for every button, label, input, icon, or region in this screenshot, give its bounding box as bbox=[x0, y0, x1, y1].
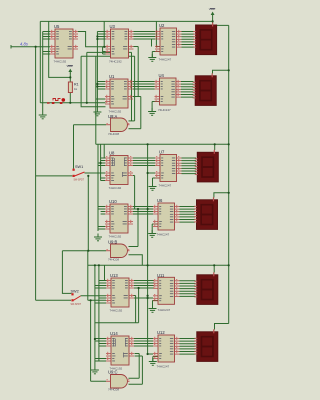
switch SW1 bbox=[73, 165, 85, 182]
wire bus to display4 bbox=[214, 193, 229, 198]
counter U8 bbox=[105, 151, 133, 191]
wire gate3 input feed bbox=[91, 300, 106, 381]
svg-text:74HC247: 74HC247 bbox=[159, 58, 172, 62]
wire U1 Q to U4 rows bbox=[133, 82, 155, 90]
wire top rail bbox=[40, 20, 212, 22]
svg-text:SW1: SW1 bbox=[75, 165, 83, 169]
input terminal bbox=[11, 45, 13, 49]
svg-text:U9:A: U9:A bbox=[108, 114, 118, 119]
ground under U6 bbox=[148, 230, 156, 237]
svg-text:74HC247: 74HC247 bbox=[158, 308, 171, 312]
wire U14 Q to U12 rows bbox=[134, 339, 153, 347]
wire U10 Q to U6 rows bbox=[133, 207, 153, 215]
svg-text:U3: U3 bbox=[110, 24, 116, 29]
svg-text:U12: U12 bbox=[157, 330, 165, 335]
ground under U4 bbox=[148, 108, 156, 115]
wire row 2 under U5 bbox=[86, 52, 88, 102]
driver U12 bbox=[153, 330, 180, 369]
svg-text:U6: U6 bbox=[157, 198, 163, 203]
svg-text:1k: 1k bbox=[74, 87, 78, 91]
svg-text:74HC247: 74HC247 bbox=[158, 108, 171, 112]
wire U14 TCU to gate3 bbox=[129, 354, 140, 379]
vcc power 2 bbox=[68, 65, 73, 74]
wire clock row bbox=[40, 102, 105, 104]
wire riser right of gate1 bbox=[140, 97, 142, 129]
display DISP2 bbox=[193, 73, 217, 105]
wire U14 D stubs bbox=[95, 339, 106, 347]
svg-text:74HC192: 74HC192 bbox=[109, 235, 122, 239]
and gate U9:C bbox=[106, 370, 130, 392]
counter U10 bbox=[105, 199, 133, 239]
wire bus to display6 bbox=[215, 324, 229, 330]
wire under U3 row2 bbox=[81, 55, 135, 57]
wire rail drop to U8 bbox=[104, 144, 106, 158]
wire U6 gnd tie bbox=[152, 224, 158, 234]
svg-text:U1: U1 bbox=[109, 74, 115, 79]
driver U6 bbox=[153, 198, 180, 237]
svg-text:74HC08: 74HC08 bbox=[108, 132, 119, 136]
wire mid rail feed bbox=[95, 56, 97, 144]
svg-text:74HC192: 74HC192 bbox=[54, 60, 67, 64]
wire U2 to display1 rows bbox=[182, 32, 195, 48]
wire U10 D stubs bbox=[98, 207, 105, 215]
wire R1 bottom bbox=[69, 93, 71, 103]
svg-text:4.8s: 4.8s bbox=[20, 42, 29, 47]
driver U7 bbox=[155, 150, 182, 188]
wire bottom left bus1 bbox=[94, 265, 96, 366]
counter U1 bbox=[105, 74, 133, 114]
vcc power 1 bbox=[210, 8, 215, 17]
clock generator bbox=[47, 98, 65, 104]
wire gate1 low row bbox=[129, 128, 141, 130]
wire U7 gnd tie bbox=[153, 178, 161, 187]
driver U11 bbox=[153, 273, 180, 312]
wire bottom feedback row bbox=[95, 322, 139, 324]
ground mid left bus bbox=[94, 234, 102, 241]
svg-text:74HC192: 74HC192 bbox=[110, 309, 123, 313]
svg-text:U11: U11 bbox=[157, 273, 165, 278]
wire bottom feedback riser2 bbox=[133, 296, 136, 323]
wire U3 D stubs bbox=[97, 32, 105, 40]
svg-text:U9:B: U9:B bbox=[108, 240, 118, 245]
counter U5 bbox=[50, 24, 78, 64]
svg-text:U5: U5 bbox=[54, 24, 60, 29]
wire SW1 to gate2 bbox=[62, 176, 106, 251]
svg-text:74HC247: 74HC247 bbox=[159, 184, 172, 188]
wire mid feedback riser1 bbox=[133, 176, 135, 210]
wire U2 gnd tie bbox=[152, 52, 160, 58]
wire rail drop to U2 bbox=[156, 21, 160, 46]
wire mid left bus1 bbox=[97, 144, 99, 231]
wire U3 Q to U2 rows bbox=[134, 32, 156, 40]
wire rail drop to U3 up bbox=[104, 21, 106, 46]
wire mid left bus2 bbox=[100, 144, 102, 180]
wire U3 left bus bbox=[96, 32, 98, 109]
ground under U5 bus bbox=[39, 112, 47, 119]
wire long left vertical bbox=[35, 47, 37, 301]
svg-text:74HC192: 74HC192 bbox=[109, 186, 122, 190]
wire row under U5 bbox=[81, 56, 105, 106]
wire U5 D1 bbox=[43, 33, 50, 35]
display DISP6 bbox=[194, 329, 218, 361]
wire U14 low stubs bbox=[95, 359, 106, 362]
wire gate2 top row bbox=[129, 246, 139, 248]
wire U12 gnd tie bbox=[153, 357, 158, 362]
display DISP3 bbox=[195, 150, 219, 182]
wire bottom left bus2 bbox=[98, 265, 100, 361]
wire U12 LT row bbox=[148, 353, 153, 355]
wire U8 D stubs bbox=[98, 158, 105, 166]
and gate U9:A bbox=[106, 114, 130, 136]
wire gate1 feedback riser bbox=[131, 52, 133, 121]
wire U13 DN stub bbox=[99, 297, 106, 299]
svg-text:U7: U7 bbox=[159, 150, 165, 155]
wire to SW2 lower bbox=[36, 299, 71, 301]
wire right bus vertical bbox=[228, 25, 230, 323]
wire U8 low stubs bbox=[101, 178, 105, 181]
driver U4 bbox=[155, 73, 182, 112]
wire vcc to right bus bbox=[213, 24, 229, 26]
wire U13 MR stub bbox=[95, 302, 106, 304]
wire input terminal to U5 bbox=[13, 46, 51, 48]
svg-text:SW2: SW2 bbox=[71, 290, 79, 294]
wire gate1 top row bbox=[129, 120, 135, 122]
wire U3 PL stub bbox=[103, 51, 106, 53]
wire vcc1 stem bbox=[212, 17, 214, 24]
svg-text:SW-SPDT: SW-SPDT bbox=[71, 304, 82, 306]
wire bus to display5 bbox=[213, 265, 215, 272]
wire mid SW line vertical bbox=[147, 144, 149, 354]
wire U5 D2 bbox=[43, 36, 50, 38]
wire vcc2 stem bbox=[69, 73, 71, 82]
ground under U7 bbox=[149, 183, 157, 190]
wire U5 D0 bbox=[43, 31, 50, 33]
svg-text:74HC08: 74HC08 bbox=[108, 388, 119, 392]
wire U5 MR bbox=[43, 53, 50, 55]
switch SW2 bbox=[71, 290, 82, 307]
wire U12 to display6 rows bbox=[180, 339, 196, 355]
wire U3 MR stub bbox=[103, 53, 106, 55]
wire bus to display2 bbox=[213, 70, 229, 73]
wire SW2 top feed bbox=[62, 251, 71, 294]
wire SW2 output bbox=[81, 295, 107, 297]
and gate U9:B bbox=[106, 240, 130, 262]
wire U5 PL bbox=[43, 51, 50, 53]
wire U3 PL MR ties bbox=[102, 47, 104, 54]
display DISP1 bbox=[193, 23, 217, 55]
svg-text:U8: U8 bbox=[109, 151, 115, 156]
svg-text:U14: U14 bbox=[110, 331, 118, 336]
wire U1 D stubs bbox=[97, 82, 105, 90]
wire U1 TCU to riser bbox=[133, 96, 141, 98]
wire U13 PL row bbox=[88, 299, 106, 301]
wire U13 D stubs bbox=[95, 281, 106, 289]
ground top left bus bbox=[93, 109, 101, 116]
wire U13 Q to U11 rows bbox=[134, 281, 154, 289]
wire gate2 low row bbox=[129, 255, 143, 265]
wire U14 TCD to gate3 bbox=[129, 356, 143, 384]
wire mid rail bbox=[96, 143, 229, 145]
wire U7 to display3 rows bbox=[182, 158, 197, 174]
wire under U3 row1 bbox=[87, 51, 132, 53]
svg-text:74HC247: 74HC247 bbox=[157, 365, 170, 369]
wire U1 DN row bbox=[96, 98, 105, 100]
wire bottom feedback riser1 bbox=[138, 288, 140, 323]
svg-text:U13: U13 bbox=[110, 273, 118, 278]
svg-text:74HC247: 74HC247 bbox=[157, 233, 170, 237]
wire bottom rail bbox=[88, 264, 229, 266]
wire U5 MR riser bbox=[49, 21, 71, 77]
wire U3 carry to U1 bbox=[133, 47, 138, 97]
wire U6 to display4 rows bbox=[180, 207, 196, 223]
wire gate1 riser2 bbox=[134, 56, 136, 121]
wire bottom rail left riser bbox=[87, 251, 89, 300]
ground under U11 bbox=[149, 305, 157, 312]
counter U14 bbox=[106, 331, 134, 371]
wire rail drop to U13 bbox=[105, 265, 108, 280]
wire mid feedback row bbox=[129, 208, 148, 210]
svg-text:U2: U2 bbox=[159, 23, 165, 28]
wire U8 Q to U7 rows bbox=[133, 158, 155, 166]
display DISP5 bbox=[194, 272, 218, 304]
ground under U12 bbox=[149, 358, 157, 365]
wire U4 to display2 rows bbox=[181, 82, 194, 98]
wire SW1 output bbox=[85, 172, 106, 174]
wire U5 data bus bbox=[42, 32, 44, 112]
svg-text:VCC: VCC bbox=[209, 7, 215, 11]
ground bottom left bus bbox=[91, 367, 99, 374]
wire U10 low stubs bbox=[98, 227, 105, 230]
display DISP4 bbox=[194, 197, 218, 229]
svg-text:R1: R1 bbox=[74, 83, 79, 87]
wire U11 gnd tie bbox=[153, 301, 160, 309]
wire U11 to display5 rows bbox=[180, 281, 196, 297]
wire U7 LT row bbox=[148, 172, 155, 174]
counter U3 bbox=[106, 24, 134, 64]
wire gate2 out riser bbox=[137, 209, 139, 247]
wire bus to display3 bbox=[214, 144, 216, 150]
wire rail drop left bbox=[39, 21, 41, 102]
svg-text:U4: U4 bbox=[159, 73, 165, 78]
wire U13 TCD to U11 bbox=[134, 297, 153, 299]
svg-text:U10: U10 bbox=[109, 199, 117, 204]
resistor R1 bbox=[68, 82, 78, 93]
wire U2 jog bbox=[151, 39, 153, 47]
counter U13 bbox=[106, 273, 134, 313]
wire U5 carry to U3 bbox=[78, 32, 106, 47]
ground under U2 bbox=[148, 54, 156, 61]
svg-text:74HC08: 74HC08 bbox=[108, 258, 119, 262]
svg-text:VCC: VCC bbox=[67, 64, 73, 68]
wire gate1 input feed bbox=[74, 125, 107, 169]
wire SW1 lower row bbox=[36, 175, 73, 177]
svg-text:74HC192: 74HC192 bbox=[109, 110, 122, 114]
svg-text:74HC192: 74HC192 bbox=[109, 60, 122, 64]
wire U5 D3 bbox=[43, 38, 50, 40]
driver U2 bbox=[155, 23, 182, 62]
svg-text:U9:C: U9:C bbox=[108, 370, 118, 375]
svg-text:SW-SPDT: SW-SPDT bbox=[74, 180, 85, 182]
wire U4 gnd tie bbox=[152, 102, 159, 112]
